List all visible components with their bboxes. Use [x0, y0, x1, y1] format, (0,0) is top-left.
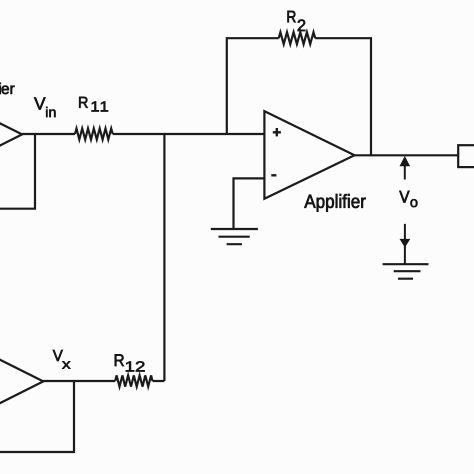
op-amp U1 (left, partially visible)	[0, 90, 22, 179]
plus sign U2	[273, 128, 281, 136]
label R11 R	[79, 97, 88, 108]
wire U3 feedback	[0, 381, 74, 452]
wire Vin node to U2 plus input	[22, 133, 264, 135]
output terminal box	[458, 145, 474, 167]
Vo arrow down shaft to ground	[404, 224, 406, 264]
label R12 12	[126, 361, 145, 371]
label Vin in	[46, 107, 55, 117]
label Vo V	[399, 191, 409, 203]
label i (cut) of left label	[0, 83, 1, 94]
resistor R2	[279, 32, 316, 44]
label er of left label	[2, 86, 15, 95]
label R11 11	[92, 102, 108, 112]
ground (U2 minus input)	[211, 229, 258, 244]
label Vx V	[53, 350, 63, 361]
wire U3 output to R12	[43, 380, 115, 382]
label Vx x	[62, 361, 70, 368]
ground (output reference)	[383, 264, 429, 279]
label R2 R	[288, 11, 296, 22]
minus sign U2	[271, 174, 276, 176]
label Vin V	[34, 98, 45, 110]
wire U2 minus input	[234, 178, 265, 229]
Vo arrowhead down	[400, 239, 411, 248]
op-amp U2 (Applifier)	[264, 111, 354, 199]
wire branch node down to R12	[153, 134, 165, 381]
wire U1 feedback	[0, 134, 35, 208]
resistor R11	[75, 129, 113, 140]
label R2 2	[298, 20, 306, 32]
Vo arrowhead up	[400, 156, 411, 166]
Vo arrow up shaft	[404, 166, 406, 180]
label Vo o	[411, 199, 418, 207]
wire R2 feedback loop	[227, 38, 371, 155]
label Applifier	[304, 194, 365, 212]
resistor R12	[115, 375, 152, 386]
wire U2 output	[355, 154, 459, 156]
label R12 R	[115, 354, 124, 366]
op-amp U3 (bottom, partially visible)	[0, 337, 43, 426]
